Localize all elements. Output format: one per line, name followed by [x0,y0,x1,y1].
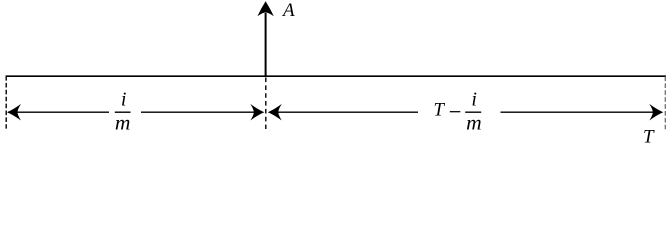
right dimension arrow: right shaft [501,111,662,113]
main horizontal timeline [6,75,667,77]
fraction i/m bar (left) [115,111,131,113]
left dimension arrow: left shaft [8,111,109,113]
minus sign [450,111,461,113]
right dimension arrow: left shaft [270,111,419,113]
svg-text:m: m [115,111,131,135]
left dimension arrow: right head [250,104,264,121]
right dashed vertical [664,77,666,130]
svg-text:i: i [121,88,127,110]
vertical arrow A shaft [265,13,267,76]
left dimension arrow: left head [7,104,21,121]
center dashed vertical [265,78,267,130]
left dimension arrow: right shaft [141,111,263,113]
svg-text:T: T [434,100,446,121]
svg-text:i: i [471,88,477,110]
svg-text:T: T [643,127,655,148]
right dimension arrow: left head [268,104,282,121]
fraction i/m bar (right) [465,111,481,113]
svg-text:A: A [281,0,295,21]
right dimension arrow: right head [649,104,663,121]
svg-text:m: m [466,111,482,135]
left dashed vertical [5,76,7,129]
vertical arrow A head [257,1,273,16]
